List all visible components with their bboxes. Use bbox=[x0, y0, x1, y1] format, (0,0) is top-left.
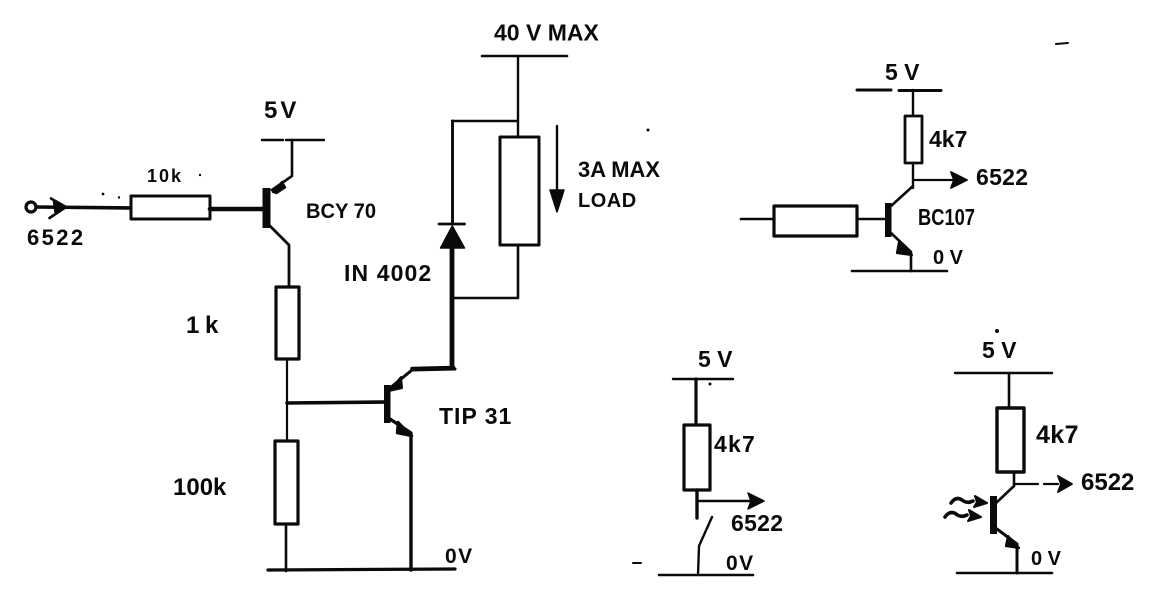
svg-text:BC107: BC107 bbox=[918, 204, 975, 230]
light arrow upper (squiggle) bbox=[951, 499, 973, 503]
resistor R6 4k7 (photo) bbox=[997, 408, 1024, 472]
transistor Q2 TIP 31 (NPN) base bar bbox=[384, 385, 391, 423]
output arrowhead (switch) bbox=[748, 493, 764, 509]
wire 4k7 to collector node (photo) bbox=[1013, 472, 1016, 486]
wire jog to Q2 collector bbox=[412, 368, 454, 369]
resistor R3 100k bbox=[275, 441, 298, 524]
svg-text:5 V: 5 V bbox=[698, 346, 733, 372]
stray dash right of left 0V rail bbox=[633, 562, 641, 564]
svg-text:k: k bbox=[205, 312, 219, 339]
output arrow 6522 (switch) bbox=[697, 500, 755, 502]
Q2 collector lead bbox=[390, 369, 455, 388]
current arrowhead bbox=[550, 190, 564, 212]
Q2 collector arrow blob near base bbox=[389, 377, 402, 391]
current arrow line 3A bbox=[556, 126, 558, 195]
Q4 collector lead bbox=[996, 486, 1014, 503]
stray dash top right bbox=[1056, 43, 1068, 44]
Q1 collector lead bbox=[268, 224, 289, 288]
switch blade bbox=[698, 517, 712, 575]
wire 4k7 to collector node bbox=[912, 163, 914, 188]
stray dot left of 100k bbox=[199, 174, 201, 176]
svg-text:4k7: 4k7 bbox=[1036, 421, 1079, 449]
svg-text:6522: 6522 bbox=[976, 164, 1028, 190]
output arrow to 6522 (BC107) bbox=[913, 179, 955, 181]
resistor R2 1k bbox=[276, 287, 299, 359]
light arrow lower head bbox=[968, 510, 981, 521]
svg-text:6522: 6522 bbox=[27, 225, 86, 250]
speck above input wire 2 bbox=[118, 196, 120, 198]
svg-text:6522: 6522 bbox=[1081, 469, 1134, 496]
svg-text:TIP 31: TIP 31 bbox=[439, 403, 512, 429]
Q3 emitter arrowhead bbox=[897, 242, 912, 255]
Q4 emitter arrowhead bbox=[1006, 536, 1019, 548]
svg-text:5V: 5V bbox=[264, 97, 299, 124]
base resistor (BC107) bbox=[774, 206, 857, 236]
Q2 emitter lead bbox=[390, 419, 411, 570]
phototransistor Q4 base bar bbox=[990, 496, 997, 534]
resistor R5 4k7 (switch) bbox=[684, 425, 710, 490]
output arrow 6522 (photo) bbox=[1015, 483, 1058, 485]
wire branch to diode top bbox=[452, 120, 518, 122]
output arrowhead (BC107) bbox=[951, 172, 967, 188]
svg-text:3A MAX: 3A MAX bbox=[578, 157, 660, 182]
wire 5V rail to Q1 emitter bbox=[272, 140, 292, 190]
wire load bottom to diode junction bbox=[452, 245, 518, 298]
svg-text:6522: 6522 bbox=[731, 510, 783, 536]
wire R1 to Q1 base bbox=[210, 207, 266, 212]
wire junction to Q2 base bbox=[287, 402, 385, 403]
Q1 emitter arrowhead (points toward base) bbox=[273, 182, 286, 194]
svg-text:4k7: 4k7 bbox=[714, 431, 756, 457]
svg-text:0V: 0V bbox=[726, 552, 755, 575]
wire rail to 4k7 bbox=[912, 90, 914, 117]
svg-text:4k7: 4k7 bbox=[929, 126, 967, 152]
5V rail (left) bbox=[262, 139, 324, 141]
Q4 emitter lead bbox=[997, 529, 1017, 573]
Q2 emitter arrowhead bbox=[397, 422, 412, 436]
0V rail (photo) bbox=[957, 572, 1052, 575]
wire base resistor to Q3 base bbox=[857, 218, 885, 221]
wire input to resistor R1 bbox=[37, 207, 131, 208]
wire down to diode bbox=[451, 121, 454, 223]
svg-text:0V: 0V bbox=[445, 545, 474, 568]
0V rail (left) bbox=[268, 569, 455, 570]
thick wire diode down to Q2 collector bbox=[450, 246, 455, 367]
wire 1k to junction to 100k bbox=[286, 359, 288, 441]
wire 100k to 0V rail bbox=[285, 524, 288, 571]
svg-text:100k: 100k bbox=[173, 474, 227, 501]
5V rail (photo) bbox=[955, 372, 1052, 374]
svg-text:5 V: 5 V bbox=[982, 337, 1017, 363]
resistor R1 10k bbox=[131, 196, 210, 219]
wire 4k7 to switch node bbox=[695, 490, 698, 518]
transistor Q1 BCY 70 (PNP) base bar bbox=[263, 188, 271, 228]
svg-text:5 V: 5 V bbox=[885, 59, 920, 85]
speck above input wire bbox=[102, 193, 105, 196]
transistor Q3 BC107 (NPN) base bar bbox=[885, 203, 892, 237]
wire rail to 4k7 (photo) bbox=[1008, 373, 1011, 409]
stray dot left of load area bbox=[647, 129, 650, 132]
0V rail (BC107) bbox=[852, 270, 947, 273]
wire rail to 4k7 (switch) bbox=[694, 379, 697, 426]
input terminal circle bbox=[26, 202, 36, 212]
svg-text:LOAD: LOAD bbox=[578, 190, 637, 212]
light arrow lower (squiggle) bbox=[945, 513, 967, 517]
light arrow upper head bbox=[974, 496, 987, 507]
svg-text:1: 1 bbox=[186, 312, 199, 339]
5V rail (BC107) bbox=[857, 89, 941, 93]
output arrowhead (photo) bbox=[1058, 476, 1072, 492]
40V supply rail bbox=[482, 55, 567, 58]
svg-text:0 V: 0 V bbox=[933, 247, 964, 269]
wire 40V rail down to load bbox=[517, 56, 519, 138]
Q3 emitter lead bbox=[891, 233, 911, 271]
5V rail (switch) bbox=[673, 378, 733, 380]
diode D1 IN4002 cathode bar bbox=[439, 223, 465, 226]
svg-text:40 V MAX: 40 V MAX bbox=[494, 20, 599, 46]
input arrowhead bbox=[50, 199, 67, 219]
svg-text:0 V: 0 V bbox=[1031, 548, 1062, 570]
resistor LOAD bbox=[500, 137, 539, 245]
wire into base resistor bbox=[741, 218, 774, 221]
stray dot above 5V bbox=[995, 329, 999, 333]
Q3 collector lead bbox=[891, 186, 913, 206]
resistor R4 4k7 bbox=[905, 116, 922, 163]
svg-text:BCY 70: BCY 70 bbox=[306, 200, 376, 223]
stray dot below switch rail bbox=[709, 383, 712, 386]
svg-text:10k: 10k bbox=[147, 166, 183, 186]
0V rail (switch) bbox=[659, 574, 753, 577]
diode D1 IN4002 triangle bbox=[441, 226, 465, 248]
svg-text:IN 4002: IN 4002 bbox=[344, 260, 432, 286]
